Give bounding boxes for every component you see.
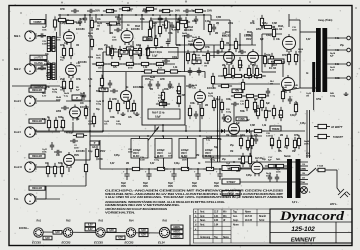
svg-text:2200: 2200 [112,99,118,101]
node junction [203,14,205,16]
label box REGLER [29,88,45,92]
svg-text:Änd.: Änd. [200,211,205,214]
svg-text:1M: 1M [226,43,229,45]
svg-text:500k: 500k [240,111,246,113]
svg-text:470k: 470k [168,32,174,35]
resistor R25 [176,19,179,33]
wire jack J4 to stage [35,131,60,133]
capacitor C26 [194,16,198,24]
svg-text:0,05µ: 0,05µ [44,64,50,66]
svg-text:330k: 330k [266,55,272,57]
capacitor C23 [117,15,121,23]
capacitor C_b1 [166,39,170,47]
resistor R11 [90,36,93,50]
tube socket (heater wiring) Rö2 ECC83 heater [63,228,72,237]
svg-text:1M: 1M [160,47,163,49]
output terminal [347,48,351,52]
svg-text:450V: 450V [168,185,174,188]
tube socket (heater wiring) Rö1 ECC83 heater [34,228,43,237]
revision table grid [194,209,271,243]
svg-text:100k: 100k [190,103,196,105]
transformer Tr1 (mic input) [47,37,55,52]
connector jack J3 Instr I [25,96,37,106]
resistor R54 [239,135,242,149]
svg-text:HEIZG.: HEIZG. [173,235,181,238]
wire EL34 grid upper [262,33,282,35]
resistor R75 [294,51,297,65]
svg-text:470k: 470k [205,46,211,49]
svg-text:0,5M: 0,5M [140,160,145,162]
wire [102,52,104,86]
svg-text:500k: 500k [176,91,182,93]
svg-text:0,5M: 0,5M [272,23,277,25]
svg-text:0,1µ: 0,1µ [42,118,47,121]
wire vertical left rail [89,14,91,131]
diode D1 [221,129,224,133]
svg-text:0,02µ: 0,02µ [290,114,296,117]
node junction [217,130,219,132]
resistor R71 [143,7,157,10]
node junction [217,135,219,137]
capacitor C_f1 [78,18,82,26]
svg-text:100k: 100k [238,65,244,67]
svg-text:0,02µ: 0,02µ [174,163,180,165]
svg-text:500k: 500k [176,45,182,47]
node junction [102,130,104,132]
svg-text:HEIZG.: HEIZG. [173,231,181,234]
svg-text:REGLER: REGLER [32,120,42,123]
capacitor C6 [170,22,174,30]
svg-text:0,02µ: 0,02µ [266,34,272,37]
svg-text:0,05µ: 0,05µ [262,23,268,25]
capacitor C11 [61,106,69,110]
svg-text:0,1µF: 0,1µF [152,56,158,58]
svg-text:350V: 350V [246,38,252,41]
svg-text:Rö2 F 40 Hz: Rö2 F 40 Hz [150,51,163,54]
svg-text:4700: 4700 [98,158,104,161]
svg-text:P: P [76,96,78,100]
transformer Tr3 output (primary winding) [316,28,321,92]
resistor R76 [271,60,285,63]
wire mains [240,181,302,183]
svg-text:350V: 350V [74,155,80,157]
svg-text:ECC83—: ECC83— [19,227,30,230]
svg-text:REGLER: REGLER [32,155,42,158]
svg-text:1M: 1M [226,134,229,137]
label box 1M [192,60,201,64]
svg-text:0,05µ: 0,05µ [96,104,102,106]
resistor R38 [84,105,87,119]
resistor R39 [108,98,111,112]
wire [168,51,232,53]
resistor R_f8 [241,79,244,93]
svg-text:ECC83: ECC83 [32,241,41,245]
mains plug [338,189,350,198]
fuse Si1 T0,8A [316,168,337,171]
resistor R68 [273,164,287,167]
voltage selector labels [302,164,306,184]
wire [300,87,316,89]
svg-text:2M: 2M [270,84,273,86]
label box 6,3V [53,231,62,235]
node junction [101,14,103,16]
svg-text:330k: 330k [136,44,142,47]
svg-text:0,05µ: 0,05µ [246,174,252,177]
resistor R31 [263,53,266,67]
wire [64,131,103,133]
resistor R27 [231,65,234,79]
svg-text:500k: 500k [96,91,102,93]
wire bus lower [90,135,262,137]
resistor R8 [184,17,187,31]
svg-text:0,5M: 0,5M [250,125,255,127]
svg-text:Rö1: Rö1 [37,220,42,223]
svg-text:1M: 1M [76,45,79,47]
wire EL34 plate to output transformer [299,20,301,88]
svg-text:2M: 2M [126,163,129,165]
wire sub-bus g3 [202,55,266,57]
resistor R16 [69,78,72,92]
label box 0,1 [133,51,141,55]
svg-text:1M: 1M [128,49,131,51]
resistor R22 [106,22,120,25]
resistor R_rail161 [154,167,168,170]
svg-text:0,05µ: 0,05µ [60,22,66,25]
label box 6,3V [85,227,96,231]
svg-text:50µF: 50µF [168,183,174,185]
capacitor C8 [184,34,192,38]
label box 6,3V [116,236,125,240]
node junction [148,168,150,170]
svg-text:500k: 500k [58,163,64,165]
resistor R19 [129,45,132,59]
svg-text:220 V~: 220 V~ [330,203,338,206]
ground [135,112,140,115]
svg-text:Instr II: Instr II [14,165,22,169]
wire [203,14,205,30]
connector jack J5 Instr II [25,162,37,172]
svg-text:50µF: 50µF [214,183,220,185]
node junction [239,44,241,46]
connector jack tremolo footswitch [225,116,231,122]
wire [163,158,165,169]
node junction [89,14,91,16]
wire [85,148,87,186]
filter can box 3 [179,139,196,159]
wire [75,159,90,161]
svg-text:0,5M: 0,5M [101,89,106,92]
resistor R_k115 [108,62,122,65]
resistor R63 [220,99,223,113]
wire [45,186,47,199]
svg-text:100k: 100k [88,56,94,59]
wire secondary tap [327,49,346,51]
svg-text:6,3V: 6,3V [158,68,163,70]
resistor R_f3 [148,26,151,40]
resistor R1 [103,9,117,12]
resistor R5 [90,17,93,31]
label box LAUTST. [30,55,47,59]
wire [89,131,91,160]
tremolo intensity arrow [148,127,159,141]
tube Rö11 ECC83 [64,152,75,168]
wire [231,52,233,64]
potentiometer P1 [106,47,111,55]
svg-text:Änd.: Änd. [200,215,205,218]
svg-text:0,05µ: 0,05µ [330,96,336,98]
svg-text:450V: 450V [143,185,149,188]
wire secondary tap [327,37,346,39]
svg-text:250V: 250V [182,36,187,38]
wire sub-bus g1 [92,21,170,23]
capacitor C_f3 [82,92,86,100]
resistor R_k130 [123,62,137,65]
resistor R_f6 [92,113,95,127]
svg-text:ELKO: ELKO [133,155,139,158]
capacitor C22 [83,15,87,23]
resistor R14 [69,45,72,59]
resistor R41 [132,100,135,114]
node junction [219,168,221,170]
wire [211,136,213,139]
connector jack J2 Mik 2 [25,64,37,74]
node junction [102,100,104,102]
svg-text:1M: 1M [292,150,295,153]
wire [251,32,253,45]
wire [175,14,177,45]
svg-text:50µF: 50µF [121,183,127,185]
resistor R_f2 [100,75,103,89]
svg-text:0,5M: 0,5M [42,44,47,46]
wire secondary tap [327,77,346,79]
svg-text:8µF: 8µF [266,102,271,105]
node junction [89,130,91,132]
resistor R12 [261,25,275,28]
svg-text:1M: 1M [195,61,198,64]
label box 1M [120,51,128,55]
resistor R9 [208,21,211,35]
resistor R46 [177,83,180,97]
svg-text:0,5M: 0,5M [266,136,271,138]
svg-text:470k: 470k [140,18,146,21]
svg-text:Rö5: Rö5 [163,220,168,223]
node junction [199,135,201,137]
node junction [250,161,252,163]
filter can box 4 [203,139,220,159]
legend resistor 10 WATT [314,124,330,128]
svg-text:0,1µF: 0,1µF [158,101,164,103]
wire [141,14,143,30]
resistor R_rail235 [228,167,242,170]
resistor R73 [220,38,223,52]
wire [99,140,101,169]
svg-text:2M: 2M [294,88,297,90]
svg-text:ECC83: ECC83 [184,28,193,32]
wire jack J2 to stage [35,68,46,70]
label box REGLER [29,119,45,123]
label box 6,3V [107,229,116,233]
svg-text:0,1µ: 0,1µ [88,150,93,153]
node junction [152,14,154,16]
svg-text:100k: 100k [226,99,232,101]
svg-text:8 Ω: 8 Ω [335,63,339,66]
wire sub-bus g2 [176,44,256,46]
resistor R_f9 [294,101,297,115]
svg-text:T 0,8A: T 0,8A [317,165,323,168]
resistor R72 [176,20,190,23]
pilot lamp La1 [301,187,308,194]
transformer Tr2 mains (primary winding) [287,159,292,198]
diode D2 [246,129,249,133]
label box 25µ [143,37,152,41]
resistor R_f7 [218,84,232,87]
resistor R_f1 [55,18,69,21]
wire [154,125,156,131]
transformer Tr3 output (secondary winding) [322,28,327,92]
connector jack J6 T.A. [25,194,37,204]
svg-text:2M: 2M [130,111,133,113]
wire [229,20,231,50]
capacitor C_t2 [197,68,201,76]
svg-text:1M: 1M [246,149,249,151]
wire [282,62,284,77]
resistor R_f5 [206,50,209,64]
resistor R_p7 [256,105,259,119]
label box 6,3V [43,236,52,240]
svg-text:Änd.: Änd. [200,224,205,227]
label box P [72,95,82,100]
resistor R24 [192,51,195,65]
svg-text:EL34: EL34 [158,241,165,245]
svg-text:470k: 470k [76,78,82,81]
resistor R43 [156,102,170,105]
wire jack J1 to stage [35,35,46,37]
capacitor C_f5 [50,142,54,150]
node junction [229,44,231,46]
label box 6,3V [85,223,96,227]
wire [66,100,90,102]
resistor R48 [46,163,49,177]
svg-text:Mik 1: Mik 1 [14,34,21,38]
svg-text:1M: 1M [268,111,271,113]
svg-text:0 Ω: 0 Ω [335,37,339,40]
svg-text:8µF: 8µF [254,98,259,101]
resistor R45 [200,105,203,119]
svg-text:125-102: 125-102 [291,226,315,233]
label box REGLER [29,186,45,190]
capacitor C_in1 [38,33,46,37]
capacitor C_box [162,100,166,108]
resistor R3 [192,9,206,12]
svg-text:6,3V: 6,3V [150,163,155,165]
resistor R_p2 [231,74,245,77]
node junction [186,14,188,16]
output terminal [347,36,351,40]
resistor R74 [234,38,237,52]
label box SICH. [222,191,240,196]
svg-text:0,02µ: 0,02µ [168,86,174,89]
capacitor C13 [148,81,152,89]
label box HEIZG. [171,225,183,229]
capacitor C28 [275,174,279,182]
resistor R62 [212,97,215,111]
svg-text:Schd: Schd [259,220,265,222]
svg-text:0,05µ: 0,05µ [300,123,306,125]
svg-text:2200: 2200 [56,110,62,113]
svg-text:2M: 2M [196,154,199,157]
svg-text:Gez.: Gez. [233,216,238,218]
wire [300,31,316,33]
label box VORST. [30,20,45,24]
svg-text:50µF: 50µF [192,183,198,185]
label box FUSS [236,117,247,121]
wire [202,155,252,157]
resistor R17 [110,45,113,59]
svg-text:340V: 340V [175,10,181,13]
wire [263,167,287,169]
wire [283,88,300,91]
filter can box 2 [155,139,172,159]
resistor R29 [255,65,258,79]
wire [95,14,97,22]
svg-text:450V: 450V [121,185,127,188]
capacitor C_f149 electrolytic [145,169,152,180]
svg-text:220k: 220k [256,28,262,31]
svg-text:KLANG: KLANG [34,62,43,65]
resistor R34 [281,88,284,102]
wire [309,110,311,158]
node junction [147,135,149,137]
resistor R_s2 [154,35,157,49]
svg-text:0,02µ: 0,02µ [226,112,232,114]
svg-text:Norm: Norm [233,225,239,227]
svg-text:TREM: TREM [272,127,280,131]
svg-text:16Ω: 16Ω [335,77,340,80]
svg-text:2M: 2M [110,33,113,35]
svg-text:6,3V: 6,3V [141,229,146,232]
transformer Tr3 output (tertiary winding) [312,62,315,92]
capacitor C17 [54,150,62,154]
svg-text:VORBEHALTEN.: VORBEHALTEN. [105,210,136,214]
wire to rectifier [250,148,252,162]
resistor R_a2 [123,47,137,50]
resistor R60 [293,137,296,151]
wire [301,168,307,170]
resistor R30 [238,57,241,71]
tube socket (heater wiring) Rö5 EL34 heater [159,227,169,237]
label box HEIZG. [171,230,183,234]
wire [261,34,263,72]
svg-text:330k: 330k [246,35,252,37]
svg-text:Brandl: Brandl [259,216,266,218]
resistor R15 [62,78,65,92]
node junction [162,135,164,137]
wire [217,96,219,162]
svg-text:470k: 470k [45,86,51,89]
svg-text:0,05µ: 0,05µ [210,160,216,162]
capacitor C27 [268,174,272,182]
node junction [118,14,120,16]
wire [150,18,176,20]
capacitor C9 [214,50,222,54]
resistor R_f10 [243,94,257,97]
svg-text:ECC83: ECC83 [125,241,134,245]
wire [205,161,308,163]
svg-text:300V: 300V [159,11,165,13]
tube socket (heater wiring) Rö4 ECC83 heater [126,228,135,237]
svg-text:0,02µ: 0,02µ [52,92,58,94]
resistor R_k145 [138,62,152,65]
